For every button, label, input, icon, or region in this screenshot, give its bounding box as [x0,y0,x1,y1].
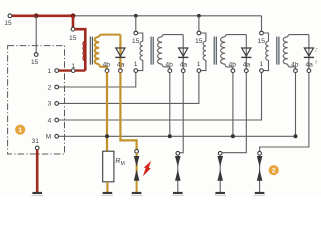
node: row M junction unit3 [231,134,235,138]
svg-text:1: 1 [18,127,22,134]
wire: unit4 4a to spark gap [260,73,309,152]
ground at terminal 31 [31,192,43,196]
pin 4a of coil 2 [180,62,188,73]
svg-text:2: 2 [272,168,276,175]
primary winding T4 [263,33,268,71]
badge 1 control unit [15,125,25,135]
svg-text:4a: 4a [180,62,188,69]
pin 1 of coil 2 [134,61,138,72]
wire: row 4 to unit4 pin1 [58,72,261,120]
node: rail junction to control unit [34,13,39,18]
terminal 3 of control unit [48,101,59,108]
wire: battery rail 15 (red) [12,15,75,18]
svg-text:4a: 4a [117,62,125,69]
node: spark gap 4 input [258,151,262,155]
wire: unit4 4b to row M [295,73,297,137]
wire: unit3 diode branch [245,35,247,69]
node: spark gap 3 input [218,151,222,155]
primary winding T3 [201,33,206,71]
svg-text:M: M [46,134,51,141]
svg-text:31: 31 [32,138,40,145]
wire: R_M to ground (orange) [106,182,108,192]
pin 4a of coil 1 [117,62,125,73]
node: rail junction unit1 [71,13,76,18]
wire: unit1 primary feed (red) [75,29,86,70]
pin 4b of coil 1 [103,62,111,73]
secondary winding T4 [283,35,309,69]
svg-text:15: 15 [31,59,39,66]
terminal 31 of control unit [32,138,40,150]
wire: spark gap 4 stem [259,155,261,192]
primary winding T1 (red humps) [83,42,84,61]
svg-text:4b: 4b [165,62,173,69]
wire: unit3 pin15 stub [198,16,200,31]
pin 4a of coil 3 [243,62,251,73]
wire: row 3 to unit3 pin1 [58,72,198,103]
svg-text:4: 4 [48,117,52,124]
svg-text:3: 3 [48,101,52,108]
terminal 15 battery [4,14,12,27]
pin 1 of coil 3 [197,61,201,72]
pin 4b of coil 4 [291,62,299,73]
ground at spark gap 4 [254,192,266,196]
primary winding T2 [138,33,143,71]
badge 2 spark gaps [269,165,279,175]
svg-text:2: 2 [48,84,52,91]
secondary winding T3 [221,35,247,69]
diode D2 [178,48,188,57]
core of coil 1 [90,37,92,65]
node: rail junction unit2 [134,14,138,18]
wire: spark gap 1 stem [136,153,138,192]
svg-text:¥: ¥ [315,60,318,66]
svg-text:4b: 4b [228,62,236,69]
spark gap 4 electrodes [257,156,263,181]
pin 4a of coil 4 [305,62,313,73]
secondary winding T2 [158,35,184,69]
wire: unit3 4b to row M [232,73,234,137]
control unit box (dash-dot) [8,46,65,154]
pin 15 of coil 2 [132,31,140,45]
terminal M of control unit [46,134,59,141]
terminal 2 of control unit [48,84,59,91]
node: row M junction at R_M [105,134,109,138]
svg-text:1: 1 [259,61,263,68]
wire: unit2 pin15 stub [135,16,137,31]
diode D1 [115,48,125,57]
svg-text:15: 15 [4,20,12,27]
wire: unit2 4a to spark gap [179,73,183,153]
ground at spark gap 1 [131,192,143,196]
ground at R_M [102,192,114,196]
figure code (faint) [314,48,318,74]
wire: row 1 (red) terminal1 to unit1 [59,69,86,71]
ground at spark gap 3 [214,192,226,196]
node: rail junction unit3 [197,14,201,18]
wire: unit1 diode branch (orange) [119,35,121,69]
wire: unit3 4a to spark gap [221,73,246,153]
diode D4 [304,48,314,57]
diode D3 [241,48,251,57]
wire: unit2 4b to row M [169,73,171,137]
svg-text:1: 1 [71,63,75,70]
node: spark gap 1 input [135,149,139,153]
pin 4b of coil 3 [228,62,236,73]
wire: terminal 31 to ground (red) [36,150,39,193]
node: spark gap 2 input [176,151,180,155]
spark flash symbol [143,161,151,177]
wire: drop to control-unit 15 [35,16,37,53]
pin 15 of coil 4 [258,31,266,45]
wire: row 2 to unit2 pin1 [58,72,135,87]
ground at spark gap 2 [172,192,184,196]
svg-text:15: 15 [69,35,77,42]
pin 1 of coil 4 [259,61,263,72]
secondary winding T1 (orange) [95,35,121,69]
pin 15 of coil 3 [195,31,203,45]
resistor R_M [103,151,125,182]
wire: 4b to measuring resistor (orange) [106,73,108,152]
svg-text:15: 15 [132,38,140,45]
wire: spark gap 3 stem [219,155,221,192]
node: row M junction unit2 [168,134,172,138]
svg-text:4b: 4b [291,62,299,69]
wire: unit1 pin15 stub (red) [72,16,75,28]
svg-text:15: 15 [195,38,203,45]
pin 1 of coil 1 [71,63,75,73]
wire: unit4 diode branch [308,35,310,69]
svg-text:1: 1 [48,68,52,75]
wire: rail 15 continuation (gray) [73,15,262,17]
spark gap 2 electrodes [175,156,181,181]
spark gap 1 electrodes [134,156,140,181]
wire: spark gap 2 stem [177,155,179,192]
wire: 4a to spark gap 1 (orange) [120,73,136,150]
terminal 15 of control unit [31,53,39,67]
svg-text:4b: 4b [103,62,111,69]
wire: unit2 diode branch [182,35,184,69]
svg-text:1: 1 [134,61,138,68]
core of coil 2 [151,37,153,65]
core of coil 3 [214,37,216,65]
terminal 1 of control unit [48,68,59,75]
wire: unit4 pin15 stub [261,16,263,31]
node: row M junction unit4 [294,134,298,138]
svg-text:4a: 4a [243,62,251,69]
wire: row M bus [59,135,296,137]
core of coil 4 [277,37,279,65]
pin 4b of coil 2 [165,62,173,73]
svg-text:1: 1 [197,61,201,68]
spark gap 3 electrodes [217,156,223,181]
svg-text:·: · [315,68,317,74]
terminal 4 of control unit [48,117,59,124]
pin 15 of coil 1 [69,27,77,41]
svg-text:15: 15 [258,38,266,45]
svg-text:4a: 4a [305,62,313,69]
svg-text:M: M [121,161,125,167]
